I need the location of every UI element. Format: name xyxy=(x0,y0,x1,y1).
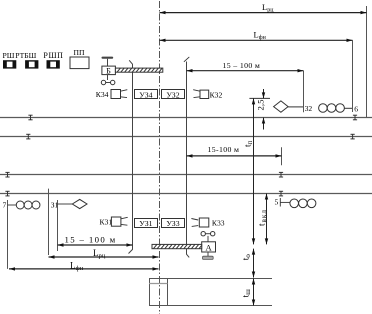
svg-text:5: 5 xyxy=(275,198,279,207)
barrier А lamp circles xyxy=(201,232,215,242)
cabinet РТБШ box xyxy=(25,60,38,68)
track 4 xyxy=(0,193,372,195)
crossing boundary line left xyxy=(129,60,133,253)
svg-text:УЗ1: УЗ1 xyxy=(139,219,152,228)
svg-text:tп: tп xyxy=(243,140,254,147)
road edge bottom xyxy=(149,305,272,307)
bell К31 horn xyxy=(121,217,128,225)
svg-text:К31: К31 xyxy=(100,218,113,227)
barrier Б stem xyxy=(107,59,109,66)
svg-text:15-100 м: 15-100 м xyxy=(208,145,240,154)
insulating joint track1 right xyxy=(353,115,357,120)
extension line mid dimension right end xyxy=(281,147,283,165)
signal 6 heads xyxy=(319,104,345,113)
signal 6 arm xyxy=(344,107,352,109)
loop УЗ4 box xyxy=(135,90,158,99)
svg-text:К32: К32 xyxy=(210,90,223,99)
barrier А beam (hatched) xyxy=(152,244,202,248)
crossing boundary line right xyxy=(187,62,190,258)
bell К32 horn xyxy=(193,90,200,98)
crossing deck left edge xyxy=(149,279,151,306)
bell К33 box xyxy=(199,218,209,227)
slash tick on right boundary top xyxy=(184,57,189,62)
extension line right end of Lрц xyxy=(366,6,368,118)
barrier А stem to base xyxy=(207,252,209,256)
track 2 xyxy=(0,136,372,138)
dimension tвкл vertical line xyxy=(266,194,268,245)
track 3 xyxy=(0,174,372,176)
signal 5 arm xyxy=(280,201,290,203)
crossing deck right edge xyxy=(167,279,169,306)
svg-text:РШ: РШ xyxy=(3,51,15,60)
signal 6 mast / extension to Lфн xyxy=(352,40,354,112)
sign З1 mast / extension line xyxy=(57,200,59,251)
svg-text:РТБШ: РТБШ xyxy=(15,51,36,60)
insulating joint track2 right xyxy=(351,134,355,139)
sign З1 arm xyxy=(57,203,72,205)
svg-text:2,5: 2,5 xyxy=(255,99,265,111)
insulating joint track4 left xyxy=(5,191,9,196)
bell К33 horn xyxy=(191,219,198,227)
signal 7 mast / extension line xyxy=(7,200,9,269)
bell К32 box xyxy=(200,90,209,98)
extension line left of З1 (Lрц bottom end) xyxy=(48,189,50,255)
svg-text:А: А xyxy=(206,243,213,253)
svg-text:УЗ2: УЗ2 xyxy=(166,90,179,99)
svg-text:15 – 100 м: 15 – 100 м xyxy=(223,61,261,70)
extension line from sign 32 up to dimension xyxy=(303,71,305,113)
svg-text:7: 7 xyxy=(3,201,7,210)
dimension 2,5 arrows xyxy=(263,89,265,98)
signal 5 heads xyxy=(290,199,316,208)
insulating joint track4 right xyxy=(279,191,283,196)
signal 7 heads xyxy=(16,201,40,209)
bell К34 horn xyxy=(121,90,128,98)
cabinet РШП box xyxy=(47,60,60,68)
svg-text:Б: Б xyxy=(106,67,111,76)
svg-text:32: 32 xyxy=(305,104,313,113)
svg-text:tвкл: tвкл xyxy=(257,209,268,226)
dimension Lрц top line xyxy=(160,12,367,14)
insulating joint track3 left xyxy=(5,172,9,177)
crossing deck inner line xyxy=(149,283,168,285)
barrier А base bar xyxy=(203,256,214,259)
sign 32 diamond xyxy=(274,101,289,112)
bell К31 box xyxy=(111,217,121,226)
insulating joint track1 left xyxy=(28,115,32,120)
crossing axis dash-dot line xyxy=(159,1,161,314)
reference bar near 2,5 dimension xyxy=(249,97,270,99)
road edge top xyxy=(149,278,272,280)
insulating joint track2 left xyxy=(26,134,30,139)
svg-text:К33: К33 xyxy=(212,218,225,227)
dimension tо vertical line xyxy=(253,249,255,278)
dimension Lфн top line xyxy=(160,39,353,41)
svg-text:ПП: ПП xyxy=(74,48,85,57)
svg-text:УЗ4: УЗ4 xyxy=(139,90,152,99)
dimension 15-100м top line xyxy=(187,70,304,72)
dimension tш vertical line xyxy=(253,279,255,306)
loop УЗ3 box xyxy=(162,219,185,228)
loop УЗ1 box xyxy=(135,219,158,228)
cabinet РШ box xyxy=(3,60,16,68)
barrier Б beam (hatched) xyxy=(115,68,162,72)
bell К34 box xyxy=(111,90,121,99)
signal 5 mast xyxy=(279,198,281,207)
dimension Lфн bottom line xyxy=(9,268,159,270)
sign 32 arm xyxy=(288,106,303,108)
svg-text:РШП: РШП xyxy=(43,51,63,60)
track 1 xyxy=(0,117,372,119)
insulating joint track3 right xyxy=(279,172,283,177)
dimension 15-100м middle line xyxy=(187,155,282,157)
svg-text:УЗ3: УЗ3 xyxy=(166,219,179,228)
sign З1 diamond xyxy=(72,199,87,208)
dimension tп vertical line xyxy=(253,98,255,244)
dimension Lрц bottom line xyxy=(49,256,159,258)
svg-text:tо: tо xyxy=(242,254,253,261)
dimension 15-100м bottom line xyxy=(58,244,133,246)
barrier Б box xyxy=(102,66,116,75)
signal 7 arm xyxy=(7,204,16,206)
svg-text:tш: tш xyxy=(241,289,252,298)
svg-text:К34: К34 xyxy=(96,90,109,99)
svg-text:15 – 100 м: 15 – 100 м xyxy=(65,235,117,245)
panel ПП box xyxy=(70,57,89,69)
svg-text:6: 6 xyxy=(354,104,358,113)
barrier А box xyxy=(202,242,216,252)
barrier Б lamp circles xyxy=(101,75,115,85)
loop УЗ2 box xyxy=(162,90,185,99)
barrier Б base bar xyxy=(102,57,114,59)
